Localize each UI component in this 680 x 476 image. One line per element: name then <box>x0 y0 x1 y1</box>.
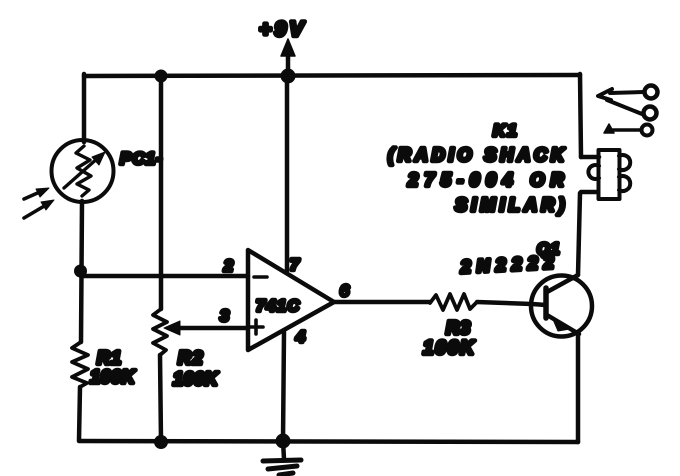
wire coil bottom lead <box>581 190 598 195</box>
wire non-inverting input pin 3 with wiper arrow to R2 <box>164 321 248 335</box>
+9V supply arrow <box>281 39 295 74</box>
wire bottom rail <box>79 441 578 442</box>
svg-text:R3: R3 <box>446 318 471 338</box>
relay NC terminal <box>645 86 658 99</box>
wire left bottom segment <box>79 387 80 440</box>
svg-text:3: 3 <box>220 308 229 325</box>
relay common contact line <box>613 128 641 132</box>
relay contact line to NC terminal <box>610 92 643 93</box>
svg-text:R2: R2 <box>178 348 204 368</box>
svg-text:2N2222: 2N2222 <box>459 252 560 277</box>
relay K1 contact armature chevron <box>598 89 612 100</box>
wire R2 branch top <box>159 76 164 309</box>
svg-text:R1: R1 <box>97 348 122 368</box>
svg-text:SIMILAR): SIMILAR) <box>455 195 569 215</box>
transistor Q1 <box>531 275 592 337</box>
svg-text:K1: K1 <box>493 121 519 140</box>
node top rail / supply <box>281 69 296 84</box>
node bottom rail / ground <box>276 434 291 449</box>
photocell PC1 <box>52 140 114 202</box>
relay common terminal <box>642 125 653 136</box>
relay K1 coil <box>588 150 630 199</box>
wire inverting input pin 2 <box>81 274 248 279</box>
svg-text:4: 4 <box>295 329 305 346</box>
svg-text:100K: 100K <box>90 367 137 387</box>
wire top rail <box>84 75 580 76</box>
svg-text:6: 6 <box>340 283 349 300</box>
svg-text:741C: 741C <box>256 298 301 315</box>
ground <box>263 441 301 475</box>
wire coil top lead <box>581 155 599 160</box>
relay common pole pivot <box>604 124 614 133</box>
node top rail / R2 branch <box>155 70 168 83</box>
svg-text:PC1-: PC1- <box>120 149 163 168</box>
svg-text:+9V: +9V <box>259 18 307 41</box>
node left wire / pin 2 tap <box>74 265 87 278</box>
wire R2 branch bottom <box>160 355 161 441</box>
svg-text:(RADIO SHACK: (RADIO SHACK <box>388 145 568 165</box>
wire op-amp output pin 6 <box>334 300 430 305</box>
wire emitter rail down to bottom rail <box>576 333 581 442</box>
wire R3 to base <box>477 302 532 304</box>
wire right rail from top corner to coil <box>580 74 581 157</box>
wire collector rail up to relay coil <box>578 193 580 275</box>
op-amp minus sign <box>254 275 267 279</box>
resistor R1 <box>72 342 88 387</box>
wire left drop from top rail to PC1 <box>82 74 87 142</box>
op-amp U1 741C <box>248 250 334 350</box>
svg-text:100K: 100K <box>423 338 476 359</box>
relay NO terminal <box>644 107 657 120</box>
svg-text:2: 2 <box>223 258 233 275</box>
light arrow 2 <box>24 200 54 218</box>
svg-text:7: 7 <box>290 257 300 274</box>
node bottom rail / R2 branch <box>154 435 168 449</box>
potentiometer R2 <box>153 309 167 355</box>
wire pin 4 drop to ground rail <box>283 332 284 441</box>
wire left below PC1 to R1 <box>81 201 82 342</box>
svg-text:275-004 OR: 275-004 OR <box>407 170 570 190</box>
op-amp plus sign <box>249 320 263 334</box>
relay contact line to NO terminal <box>607 100 642 114</box>
light arrow 1 <box>24 188 49 199</box>
wire pin 7 supply drop <box>285 76 290 271</box>
svg-text:100K: 100K <box>173 369 220 389</box>
resistor R3 <box>430 294 477 310</box>
